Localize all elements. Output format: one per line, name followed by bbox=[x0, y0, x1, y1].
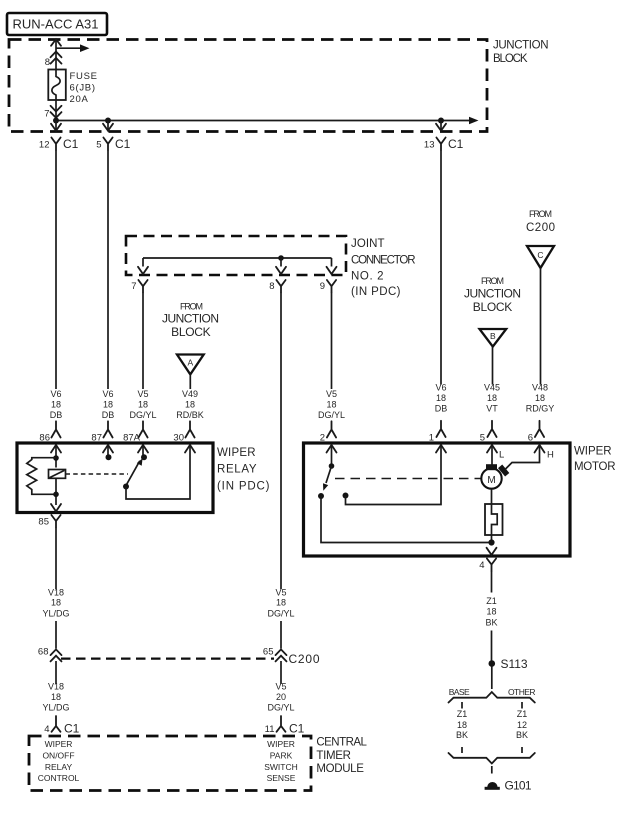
joint connector internal bus bbox=[143, 255, 332, 266]
svg-text:BK: BK bbox=[456, 730, 468, 740]
svg-text:V6: V6 bbox=[102, 389, 113, 399]
relay switch lever bbox=[123, 458, 143, 489]
wire V48 18 RD/GY (C to motor 6) bbox=[526, 268, 555, 414]
svg-text:20: 20 bbox=[276, 692, 286, 702]
svg-text:A: A bbox=[187, 358, 193, 368]
svg-text:11: 11 bbox=[265, 724, 275, 735]
park switch lever bbox=[323, 466, 332, 491]
relay coupling (dashed) bbox=[66, 473, 129, 475]
svg-text:V5: V5 bbox=[275, 682, 286, 692]
wire feed from RUN-ACC into junction block bbox=[51, 39, 61, 70]
CTM connector C1 pin 11 bbox=[265, 716, 305, 736]
wire V18 18 YL/DG (C200 to CTM 4) bbox=[42, 661, 69, 713]
wire V5 18 DG/YL (joint 7 to relay 87A) bbox=[129, 293, 156, 421]
svg-text:C1: C1 bbox=[289, 722, 305, 736]
splice S113 bbox=[489, 657, 528, 671]
wiper motor label bbox=[574, 446, 616, 474]
svg-text:S113: S113 bbox=[501, 657, 528, 671]
park switch contact (run) bbox=[318, 493, 492, 543]
svg-text:MODULE: MODULE bbox=[316, 763, 364, 775]
svg-text:18: 18 bbox=[457, 720, 467, 730]
svg-text:65: 65 bbox=[263, 647, 274, 658]
wire V5 18 DG/YL (joint 8 to C200 65) bbox=[267, 293, 294, 649]
svg-text:YL/DG: YL/DG bbox=[42, 609, 69, 619]
bus junction node (x=441) bbox=[438, 118, 444, 124]
label RUN-ACC A31 bbox=[7, 13, 107, 35]
motor pin 1 connector bbox=[429, 421, 446, 453]
svg-text:JUNCTION: JUNCTION bbox=[464, 287, 521, 301]
park switch contact (park) bbox=[343, 445, 442, 505]
joint connector pin 8 bbox=[269, 267, 286, 293]
svg-text:G101: G101 bbox=[505, 779, 532, 793]
motor pin 4 exit bbox=[479, 548, 496, 571]
svg-text:12: 12 bbox=[39, 140, 50, 151]
svg-text:C200: C200 bbox=[289, 652, 320, 666]
motor M bbox=[481, 464, 509, 488]
svg-text:5: 5 bbox=[480, 433, 485, 444]
bus junction node (x=56) bbox=[53, 118, 59, 124]
svg-text:WIPER: WIPER bbox=[267, 739, 295, 749]
svg-text:5: 5 bbox=[96, 140, 101, 151]
connector C1 pin 12 bbox=[39, 121, 79, 152]
svg-text:JOINT: JOINT bbox=[351, 238, 385, 250]
connector triangle A bbox=[177, 355, 204, 375]
svg-text:DB: DB bbox=[435, 404, 448, 414]
wire V6 18 DB (pin 12 to relay 86) bbox=[50, 150, 63, 420]
svg-text:V18: V18 bbox=[48, 588, 64, 598]
joint connector pin 9 bbox=[320, 267, 337, 293]
connector C200 pin 68 bbox=[38, 647, 62, 662]
svg-text:V6: V6 bbox=[50, 389, 61, 399]
svg-text:DG/YL: DG/YL bbox=[129, 410, 156, 420]
splice options brace (top) bbox=[449, 687, 536, 703]
svg-text:4: 4 bbox=[44, 724, 49, 735]
svg-text:ON/OFF: ON/OFF bbox=[42, 750, 74, 760]
wire V49 18 RD/BK (A to relay 30) bbox=[176, 374, 204, 420]
wire Z1 12 BK (other option) bbox=[516, 709, 528, 740]
svg-text:18: 18 bbox=[486, 607, 496, 617]
svg-text:87A: 87A bbox=[123, 433, 141, 444]
ground G101 bbox=[485, 779, 532, 793]
svg-text:V49: V49 bbox=[182, 389, 198, 399]
from junction block label (A) bbox=[162, 301, 219, 339]
svg-text:8: 8 bbox=[269, 281, 274, 292]
wire V6 18 DB (pin 5 to relay 87) bbox=[102, 150, 115, 420]
svg-text:86: 86 bbox=[39, 433, 50, 444]
svg-text:MOTOR: MOTOR bbox=[574, 461, 616, 473]
svg-text:BK: BK bbox=[516, 730, 528, 740]
central timer module label bbox=[316, 737, 367, 775]
svg-text:7: 7 bbox=[131, 281, 136, 292]
svg-text:JUNCTION: JUNCTION bbox=[162, 312, 219, 326]
svg-text:18: 18 bbox=[51, 692, 61, 702]
svg-text:18: 18 bbox=[487, 393, 497, 403]
joint connector no.2 (dashed box) bbox=[126, 236, 346, 275]
wire V5 20 DG/YL (C200 to CTM 11) bbox=[267, 661, 294, 713]
fuse F6 (JB) 20A bbox=[48, 70, 97, 106]
wire S113 to splice options bbox=[491, 667, 493, 690]
svg-text:2: 2 bbox=[320, 433, 325, 444]
wire V6 18 DB (pin 13 to motor 1) bbox=[435, 150, 448, 414]
relay contact 87 stub bbox=[106, 445, 112, 460]
junction block label bbox=[493, 40, 549, 65]
svg-text:FROM: FROM bbox=[180, 301, 203, 311]
wire Z1 18 BK (motor 4 to S113) bbox=[485, 571, 497, 661]
svg-text:68: 68 bbox=[38, 647, 49, 658]
junction block (dashed box) bbox=[9, 40, 487, 132]
svg-text:DG/YL: DG/YL bbox=[318, 410, 345, 420]
svg-text:C200: C200 bbox=[526, 222, 555, 234]
svg-text:V5: V5 bbox=[326, 389, 337, 399]
svg-text:18: 18 bbox=[436, 393, 446, 403]
connector C1 pin 13 bbox=[424, 121, 464, 152]
svg-text:7: 7 bbox=[44, 109, 49, 120]
svg-text:JUNCTION: JUNCTION bbox=[493, 40, 549, 52]
svg-text:(IN PDC): (IN PDC) bbox=[217, 481, 270, 493]
svg-text:L: L bbox=[499, 450, 504, 461]
svg-text:V6: V6 bbox=[435, 383, 446, 393]
svg-text:V45: V45 bbox=[484, 383, 500, 393]
svg-text:PARK: PARK bbox=[270, 750, 293, 760]
svg-text:RD/BK: RD/BK bbox=[176, 410, 204, 420]
motor pin 6 connector bbox=[528, 421, 554, 461]
svg-text:OTHER: OTHER bbox=[508, 687, 536, 697]
svg-text:Z1: Z1 bbox=[486, 596, 497, 606]
fuse terminal pin 7 bbox=[44, 100, 61, 121]
svg-text:FUSE: FUSE bbox=[70, 71, 98, 82]
svg-text:6(JB): 6(JB) bbox=[70, 83, 96, 94]
from C200 label bbox=[526, 209, 555, 234]
connector C200 (dashed in-line) bbox=[61, 652, 320, 666]
from junction block label (B) bbox=[464, 276, 521, 314]
svg-text:20A: 20A bbox=[70, 94, 89, 105]
circuit breaker bbox=[485, 489, 503, 543]
svg-text:CONNECTOR: CONNECTOR bbox=[351, 254, 416, 266]
svg-text:C1: C1 bbox=[448, 137, 464, 151]
svg-text:8: 8 bbox=[45, 57, 50, 68]
svg-text:(IN PDC): (IN PDC) bbox=[351, 286, 401, 298]
svg-text:RD/GY: RD/GY bbox=[526, 404, 555, 414]
svg-text:BASE: BASE bbox=[449, 687, 470, 697]
relay pin 87A connector bbox=[123, 421, 148, 452]
motor pin 6 wire to brush bbox=[505, 445, 540, 470]
svg-text:C1: C1 bbox=[64, 722, 80, 736]
svg-text:RELAY: RELAY bbox=[217, 464, 257, 476]
wire V5 18 DG/YL (joint 9 to motor 2) bbox=[318, 293, 345, 421]
svg-text:YL/DG: YL/DG bbox=[42, 703, 69, 713]
central timer module (dashed box) bbox=[29, 736, 311, 791]
svg-text:18: 18 bbox=[326, 400, 336, 410]
svg-text:BLOCK: BLOCK bbox=[493, 53, 528, 65]
svg-text:87: 87 bbox=[91, 433, 102, 444]
svg-text:FROM: FROM bbox=[529, 209, 552, 219]
svg-text:WIPER: WIPER bbox=[574, 446, 612, 458]
connector C1 pin 5 bbox=[96, 121, 130, 152]
svg-text:V5: V5 bbox=[275, 588, 286, 598]
svg-text:C1: C1 bbox=[63, 137, 79, 151]
svg-text:BK: BK bbox=[485, 618, 497, 628]
svg-text:V5: V5 bbox=[137, 389, 148, 399]
svg-text:H: H bbox=[547, 450, 554, 461]
motor pin 2 connector bbox=[320, 421, 337, 452]
svg-text:CONTROL: CONTROL bbox=[38, 773, 80, 783]
base branch tick (bottom) bbox=[461, 747, 463, 753]
svg-text:BLOCK: BLOCK bbox=[171, 325, 211, 339]
svg-text:RELAY: RELAY bbox=[45, 762, 73, 772]
svg-text:18: 18 bbox=[535, 393, 545, 403]
svg-text:RUN-ACC A31: RUN-ACC A31 bbox=[13, 17, 99, 32]
svg-text:DB: DB bbox=[50, 410, 63, 420]
svg-text:WIPER: WIPER bbox=[45, 739, 73, 749]
svg-text:DB: DB bbox=[102, 410, 115, 420]
branch arrow (bus feed) bbox=[56, 44, 90, 52]
svg-text:18: 18 bbox=[276, 598, 286, 608]
relay pin 86 connector bbox=[39, 421, 61, 452]
wire V18 18 YL/DG (relay 85 to C200 68) bbox=[42, 528, 69, 649]
fuse terminal pin 8 bbox=[45, 52, 62, 68]
relay contact 87A stub bbox=[141, 445, 147, 460]
relay coil branch wire bbox=[53, 445, 59, 468]
wire to ground bbox=[491, 766, 493, 774]
CTM connector C1 pin 4 bbox=[44, 716, 79, 736]
svg-text:1: 1 bbox=[429, 433, 434, 444]
wiper relay label bbox=[217, 447, 270, 493]
svg-text:9: 9 bbox=[320, 281, 325, 292]
svg-text:Z1: Z1 bbox=[457, 709, 468, 719]
svg-text:6: 6 bbox=[528, 433, 533, 444]
svg-text:18: 18 bbox=[51, 400, 61, 410]
svg-text:C: C bbox=[537, 250, 543, 260]
park switch common (pin 2) bbox=[329, 445, 335, 469]
wire Z1 18 BK (base option) bbox=[456, 709, 468, 740]
motor pin 5 wire to brush bbox=[491, 445, 493, 465]
wiper relay box bbox=[17, 443, 213, 513]
svg-text:4: 4 bbox=[479, 560, 484, 571]
svg-text:18: 18 bbox=[51, 598, 61, 608]
svg-text:SWITCH: SWITCH bbox=[264, 762, 298, 772]
bus junction node (x=108) bbox=[105, 118, 111, 124]
svg-text:BLOCK: BLOCK bbox=[473, 300, 513, 314]
relay pin 30 connector bbox=[173, 421, 195, 452]
wiper motor box bbox=[304, 443, 571, 556]
relay coil bbox=[49, 470, 66, 506]
motor coupling (dashed) bbox=[335, 478, 481, 480]
relay pin 87 connector bbox=[91, 421, 113, 452]
other branch tick (bottom) bbox=[521, 747, 523, 753]
relay common wire to pin 30 bbox=[126, 445, 190, 499]
joint connector label bbox=[351, 238, 416, 298]
svg-text:18: 18 bbox=[103, 400, 113, 410]
svg-text:85: 85 bbox=[38, 517, 49, 528]
splice options brace (bottom) bbox=[449, 753, 535, 764]
motor pin 5 connector bbox=[480, 421, 505, 461]
svg-text:CENTRAL: CENTRAL bbox=[316, 737, 367, 749]
other branch tick (top) bbox=[521, 702, 523, 709]
joint connector pin 7 bbox=[131, 267, 148, 293]
svg-text:30: 30 bbox=[173, 433, 184, 444]
svg-text:VT: VT bbox=[486, 404, 498, 414]
svg-text:V48: V48 bbox=[532, 383, 548, 393]
svg-text:13: 13 bbox=[424, 140, 435, 151]
relay resistor bbox=[27, 458, 56, 495]
svg-text:M: M bbox=[487, 475, 495, 486]
connector triangle C bbox=[527, 246, 554, 268]
svg-text:DG/YL: DG/YL bbox=[267, 609, 294, 619]
CTM input label: wiper park switch sense bbox=[264, 739, 298, 783]
motor internal junction node bbox=[488, 539, 494, 545]
relay pin 85 exit bbox=[38, 504, 61, 528]
svg-text:C1: C1 bbox=[115, 137, 131, 151]
svg-text:FROM: FROM bbox=[481, 276, 504, 286]
svg-text:18: 18 bbox=[185, 400, 195, 410]
svg-text:V18: V18 bbox=[48, 682, 64, 692]
svg-text:SENSE: SENSE bbox=[267, 773, 296, 783]
svg-text:B: B bbox=[490, 331, 496, 341]
connector C200 pin 65 bbox=[263, 647, 287, 662]
svg-text:Z1: Z1 bbox=[517, 709, 528, 719]
CTM input label: wiper on/off relay control bbox=[38, 739, 80, 783]
svg-text:WIPER: WIPER bbox=[217, 447, 256, 459]
svg-text:TIMER: TIMER bbox=[316, 750, 351, 762]
svg-text:18: 18 bbox=[138, 400, 148, 410]
svg-text:DG/YL: DG/YL bbox=[267, 703, 294, 713]
svg-text:12: 12 bbox=[517, 720, 527, 730]
junction block bus wire with arrow bbox=[56, 117, 479, 125]
connector triangle B bbox=[480, 329, 507, 347]
svg-text:NO. 2: NO. 2 bbox=[351, 271, 384, 283]
base branch tick (top) bbox=[461, 702, 463, 709]
wire V45 18 VT (B to motor 5) bbox=[484, 347, 500, 414]
